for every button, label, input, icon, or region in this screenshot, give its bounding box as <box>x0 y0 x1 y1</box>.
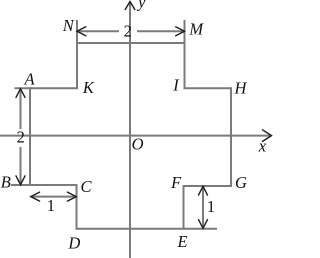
svg-text:C: C <box>80 177 92 196</box>
svg-text:G: G <box>235 173 247 192</box>
svg-text:N: N <box>62 16 75 35</box>
svg-text:E: E <box>177 232 188 251</box>
svg-text:B: B <box>1 172 11 191</box>
svg-text:F: F <box>170 173 182 192</box>
svg-text:H: H <box>234 78 248 97</box>
svg-text:1: 1 <box>47 196 55 215</box>
svg-text:2: 2 <box>17 128 25 147</box>
svg-text:O: O <box>132 134 144 153</box>
svg-text:M: M <box>188 19 204 38</box>
svg-text:A: A <box>24 69 36 88</box>
svg-text:x: x <box>258 136 267 155</box>
svg-text:2: 2 <box>124 22 132 41</box>
svg-text:K: K <box>82 78 95 97</box>
svg-text:y: y <box>136 0 146 12</box>
svg-text:D: D <box>67 233 80 252</box>
svg-text:1: 1 <box>207 197 215 216</box>
